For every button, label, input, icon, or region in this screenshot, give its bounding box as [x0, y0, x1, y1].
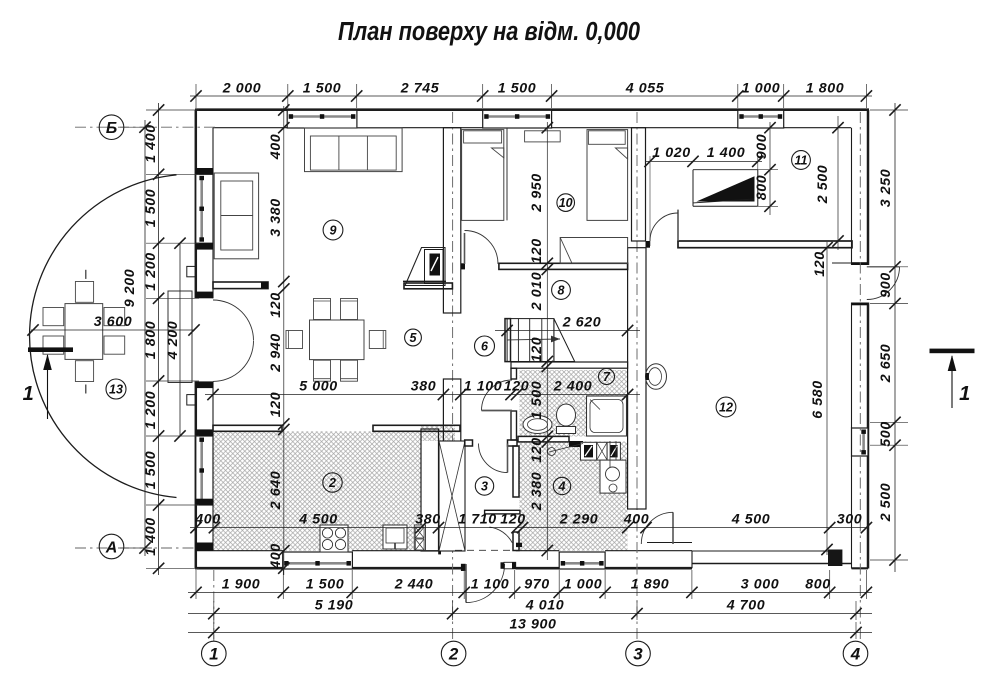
- porch corner column: [828, 550, 842, 567]
- room label 6: [475, 336, 495, 356]
- svg-text:2: 2: [448, 645, 459, 664]
- svg-text:120: 120: [504, 379, 529, 395]
- window bottom kitchen 1500: [283, 552, 353, 569]
- svg-text:2 650: 2 650: [878, 344, 894, 384]
- porch edge wall: [647, 543, 868, 569]
- right exterior wall: [852, 110, 869, 569]
- french doors to terrace: [213, 300, 254, 381]
- door room11: [650, 210, 678, 241]
- axis circle 3: [626, 641, 651, 666]
- axis circle B: [99, 115, 124, 140]
- svg-text:12: 12: [719, 401, 733, 415]
- svg-text:380: 380: [415, 512, 440, 528]
- svg-text:1 500: 1 500: [529, 381, 545, 420]
- bath7 top partition: [511, 362, 628, 368]
- svg-text:1 500: 1 500: [498, 81, 537, 97]
- svg-text:1 100: 1 100: [464, 379, 503, 395]
- kitchen room 2 hatched floor: [213, 431, 421, 550]
- bottom dim row2 line+ticks: [188, 601, 872, 620]
- boiler room4: [600, 441, 626, 493]
- closet with X-cross: [439, 441, 465, 551]
- bottom dim row3 text: [510, 617, 557, 633]
- door room3/room4: [490, 527, 513, 543]
- bathroom room 4 hatched floor: [520, 442, 628, 551]
- room label 13: [106, 379, 126, 399]
- axis line A horizontal: [75, 547, 196, 549]
- interior dim column left line: [278, 104, 289, 575]
- right dim chain line+ticks: [870, 103, 908, 572]
- svg-text:120: 120: [500, 512, 525, 528]
- section mark right: [930, 349, 975, 408]
- svg-text:План поверху на відм. 0,000: План поверху на відм. 0,000: [338, 18, 640, 46]
- left dim chain texts: [143, 124, 159, 556]
- svg-text:300: 300: [837, 512, 862, 528]
- svg-text:2 640: 2 640: [268, 471, 284, 511]
- svg-text:3: 3: [633, 645, 643, 664]
- svg-text:4 500: 4 500: [731, 512, 771, 528]
- entrance door leaf and arc: [466, 564, 505, 603]
- svg-text:1 500: 1 500: [303, 81, 342, 97]
- room label 7: [599, 369, 615, 385]
- svg-text:380: 380: [411, 379, 436, 395]
- svg-text:4: 4: [850, 645, 861, 664]
- top exterior wall: [195, 110, 869, 128]
- svg-text:400: 400: [623, 512, 649, 528]
- axis line 4 vertical: [859, 112, 861, 641]
- room label 3: [475, 477, 493, 495]
- bottom exterior wall: [195, 551, 692, 569]
- svg-text:400: 400: [194, 512, 220, 528]
- interior dim column center texts: [529, 173, 545, 511]
- fireplace room5: [403, 248, 446, 286]
- svg-text:2 000: 2 000: [222, 81, 262, 97]
- nightstand room10: [525, 131, 561, 142]
- loveseat room9 left: [214, 173, 258, 259]
- jamb blocks french-door piers left wall: [196, 243, 214, 436]
- svg-text:3 000: 3 000: [741, 577, 780, 593]
- bed room10 left: [462, 130, 504, 221]
- svg-text:4 200: 4 200: [165, 321, 181, 361]
- axis circle 4: [843, 641, 868, 666]
- interior chain lower line: [190, 522, 872, 533]
- svg-text:3: 3: [481, 480, 488, 494]
- axis line 3 vertical: [636, 112, 638, 641]
- axis circle 1: [202, 641, 227, 666]
- room11 dim 900/800: [754, 122, 778, 215]
- closet room11: [693, 170, 758, 207]
- room label 9: [323, 220, 343, 240]
- left dim chain line+ticks: [146, 103, 199, 575]
- svg-text:2: 2: [328, 476, 336, 490]
- room3 corner partition: [485, 510, 520, 514]
- entrance lintel dashed: [455, 549, 515, 551]
- door handle detail room4: [548, 444, 584, 456]
- room label 10: [557, 194, 575, 212]
- room label 5: [405, 329, 422, 346]
- axis circle A: [99, 534, 124, 559]
- svg-text:120: 120: [812, 251, 828, 276]
- window W2 top wall 1500: [483, 110, 552, 128]
- room label 8: [552, 281, 571, 300]
- bath7/4 partition: [518, 436, 583, 447]
- svg-text:10: 10: [559, 196, 573, 210]
- window left wall lower 1500: [196, 436, 213, 505]
- sofa room9 top: [305, 128, 403, 172]
- svg-text:1 000: 1 000: [742, 81, 781, 97]
- top dimension chain line+ticks: [190, 84, 872, 108]
- wall room11 bottom: [646, 241, 853, 248]
- axis line 2 vertical: [452, 112, 454, 641]
- svg-text:2 440: 2 440: [394, 577, 434, 593]
- interior chain lower texts: [194, 512, 862, 528]
- hatched wall strip above closet: [421, 426, 455, 441]
- svg-text:2 500: 2 500: [878, 483, 894, 523]
- svg-text:900: 900: [754, 134, 770, 159]
- bathroom room 7 hatched floor: [520, 370, 628, 437]
- axis line 1 vertical: [213, 570, 215, 641]
- svg-text:1 020: 1 020: [652, 145, 691, 161]
- corridor-bath partition: [511, 368, 517, 440]
- svg-text:6: 6: [481, 340, 489, 354]
- svg-text:1 710: 1 710: [458, 512, 497, 528]
- jamb left-wall top corner: [196, 168, 214, 551]
- svg-text:120: 120: [268, 292, 284, 317]
- svg-text:1 890: 1 890: [631, 577, 670, 593]
- svg-text:4: 4: [558, 480, 566, 494]
- left 4200 dim line: [174, 238, 185, 442]
- room11 dim 1020/1400: [644, 145, 763, 246]
- svg-text:4 010: 4 010: [525, 598, 565, 614]
- svg-text:5 190: 5 190: [315, 598, 354, 614]
- terrace 3600 text: [94, 314, 133, 330]
- svg-text:4 055: 4 055: [625, 81, 665, 97]
- svg-text:400: 400: [268, 134, 284, 160]
- room label 12: [716, 397, 736, 417]
- svg-text:1: 1: [23, 383, 35, 405]
- axis line B horizontal: [75, 126, 215, 128]
- right dim chain texts: [878, 169, 894, 523]
- svg-text:900: 900: [878, 272, 894, 297]
- wall room9/room5 left piece: [213, 282, 268, 289]
- wall living/hall lower section: [443, 379, 460, 443]
- washer units room4: [581, 442, 621, 460]
- door room7 from corridor: [482, 380, 513, 411]
- svg-text:3 600: 3 600: [94, 314, 133, 330]
- kitchen tall unit: [414, 525, 425, 550]
- svg-text:120: 120: [529, 337, 545, 362]
- left 9200 dim line: [120, 120, 152, 556]
- svg-text:11: 11: [795, 154, 808, 168]
- svg-text:13 900: 13 900: [510, 617, 557, 633]
- window right wall 500: [852, 428, 869, 456]
- wall bedroom10 bottom: [461, 263, 628, 269]
- kitchen sink: [383, 525, 407, 549]
- window W3 top wall 1000: [738, 110, 784, 128]
- kitchen top wall right piece: [373, 425, 460, 431]
- window W1 top wall 1500: [287, 110, 357, 128]
- wall living/hall upper section: [443, 128, 460, 313]
- svg-text:А: А: [105, 539, 118, 556]
- kitchen top wall left piece: [213, 425, 282, 431]
- svg-text:970: 970: [524, 577, 549, 593]
- bottom dim row1 texts: [222, 577, 831, 593]
- svg-text:2 950: 2 950: [529, 173, 545, 213]
- door right wall (outward): [867, 267, 900, 300]
- room label 11: [792, 151, 811, 170]
- title text: [338, 18, 640, 46]
- bed room10 right: [587, 130, 628, 221]
- svg-text:800: 800: [754, 175, 770, 200]
- room label 2: [323, 473, 342, 492]
- svg-text:4 700: 4 700: [726, 598, 766, 614]
- interior dim column center line: [542, 122, 553, 560]
- door room3 top: [479, 444, 508, 473]
- toilet room7: [557, 404, 576, 434]
- terrace chair marks: [85, 270, 87, 394]
- wall room10/room11: [632, 128, 646, 241]
- svg-text:120: 120: [268, 392, 284, 417]
- stairs dim 2620: [495, 315, 640, 337]
- svg-text:500: 500: [878, 421, 894, 446]
- interior chain upper line: [205, 389, 640, 400]
- entrance side panel: [501, 562, 516, 569]
- svg-text:3 380: 3 380: [268, 198, 284, 237]
- svg-text:2 500: 2 500: [815, 165, 831, 205]
- interior chain upper texts: [299, 379, 592, 395]
- svg-text:2 620: 2 620: [562, 315, 602, 331]
- stair left partition: [505, 319, 511, 362]
- section mark left: [23, 347, 73, 419]
- staircase: [507, 319, 575, 362]
- svg-text:1 900: 1 900: [222, 577, 261, 593]
- bottom dim row1 line+ticks: [188, 570, 872, 599]
- svg-text:1 400: 1 400: [707, 145, 746, 161]
- interior dim column left texts: [268, 134, 284, 570]
- kitchen right wall: [421, 429, 439, 551]
- kitchen cooktop: [320, 525, 348, 552]
- svg-text:120: 120: [529, 437, 545, 462]
- short wall line right of room12 top: [832, 262, 852, 264]
- room label 4: [553, 477, 570, 494]
- svg-text:1 100: 1 100: [471, 577, 510, 593]
- svg-text:2 380: 2 380: [529, 472, 545, 512]
- terrace chairs: [43, 282, 125, 382]
- svg-text:13: 13: [109, 383, 123, 397]
- svg-text:6 580: 6 580: [810, 380, 826, 419]
- room12 dim 6580: [810, 242, 833, 555]
- axis circle 2: [441, 641, 466, 666]
- left 9200 text: [122, 269, 138, 308]
- svg-text:2 400: 2 400: [553, 379, 593, 395]
- svg-text:2 940: 2 940: [268, 333, 284, 373]
- bottom dim row3 line+ticks: [188, 622, 872, 639]
- room10 divider line: [506, 128, 508, 220]
- svg-text:4 500: 4 500: [298, 512, 338, 528]
- svg-text:120: 120: [529, 238, 545, 263]
- svg-text:9 200: 9 200: [122, 269, 138, 308]
- wall room9/room5 right piece: [404, 283, 452, 289]
- svg-text:1 500: 1 500: [306, 577, 345, 593]
- shower tray room7: [587, 396, 627, 436]
- terrace table: [65, 304, 103, 360]
- jamb blocks right-wall door: [852, 262, 869, 305]
- bottom dim row2 texts: [315, 598, 766, 614]
- left 4200 text: [165, 321, 181, 361]
- top dimension texts: [222, 81, 845, 97]
- svg-text:1: 1: [209, 645, 218, 664]
- jamb entrance door: [438, 547, 465, 572]
- exterior landing at french door: [168, 291, 192, 383]
- svg-text:2 745: 2 745: [400, 81, 440, 97]
- window bottom hall 1000: [559, 552, 605, 569]
- svg-text:9: 9: [330, 224, 337, 238]
- door room12 bottom exit: [641, 512, 673, 544]
- svg-text:800: 800: [805, 577, 830, 593]
- svg-text:3 250: 3 250: [878, 169, 894, 208]
- svg-text:2 010: 2 010: [529, 272, 545, 312]
- dining table with 6 chairs room5: [286, 299, 386, 382]
- washbasin room7: [523, 416, 552, 434]
- svg-text:2 290: 2 290: [559, 512, 599, 528]
- svg-text:1: 1: [959, 383, 971, 405]
- svg-text:400: 400: [268, 543, 284, 569]
- terrace 3600 dim: [27, 324, 199, 335]
- dresser room10: [560, 238, 627, 264]
- svg-text:1 000: 1 000: [564, 577, 603, 593]
- door in wall y262 (from hall to bedroom corridor): [464, 232, 466, 261]
- svg-text:8: 8: [558, 284, 565, 298]
- room4 left partition: [513, 446, 522, 551]
- wall room12 left: [628, 248, 646, 509]
- washbasin room12 wall: [646, 364, 667, 390]
- window left wall upper 1500: [196, 174, 213, 243]
- room3 top partition: [465, 440, 517, 446]
- svg-text:1 800: 1 800: [806, 81, 845, 97]
- room11 wall 120 label: [812, 251, 828, 276]
- svg-text:5: 5: [410, 331, 418, 345]
- pilaster notches on left wall: [187, 266, 196, 405]
- room11 dim 2500: [815, 116, 844, 250]
- door room5-corridor upper (room10 door): [465, 231, 499, 265]
- svg-text:7: 7: [603, 370, 611, 384]
- left exterior wall: [196, 110, 213, 569]
- svg-text:Б: Б: [106, 120, 117, 137]
- terrace semicircle arc: [30, 175, 177, 498]
- svg-text:5 000: 5 000: [299, 379, 338, 395]
